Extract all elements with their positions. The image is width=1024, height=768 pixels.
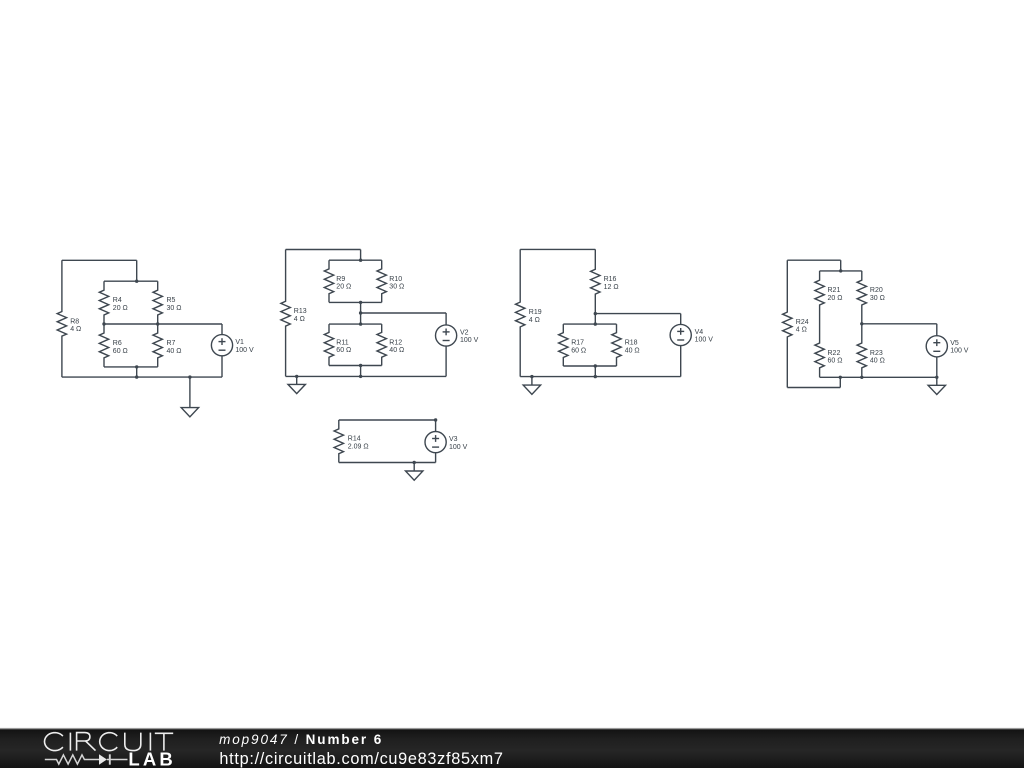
svg-text:R24: R24 [796, 319, 809, 326]
svg-text:R5: R5 [167, 297, 176, 304]
svg-text:R20: R20 [870, 287, 883, 294]
svg-text:R6: R6 [113, 340, 122, 347]
svg-text:100 V: 100 V [460, 337, 479, 344]
svg-text:100 V: 100 V [235, 347, 254, 354]
svg-text:2.09 Ω: 2.09 Ω [348, 444, 369, 451]
svg-text:R16: R16 [604, 276, 617, 283]
svg-text:R11: R11 [336, 339, 348, 346]
svg-text:R19: R19 [529, 309, 542, 316]
svg-text:30 Ω: 30 Ω [389, 284, 404, 291]
svg-text:12 Ω: 12 Ω [604, 284, 619, 291]
svg-text:R10: R10 [389, 276, 402, 283]
svg-text:4 Ω: 4 Ω [796, 327, 807, 334]
svg-text:http://circuitlab.com/cu9e83zf: http://circuitlab.com/cu9e83zf85xm7 [219, 750, 503, 768]
svg-text:100 V: 100 V [695, 337, 714, 344]
svg-text:R4: R4 [113, 297, 122, 304]
svg-text:R18: R18 [625, 340, 638, 347]
svg-text:R21: R21 [828, 287, 841, 294]
svg-text:R12: R12 [389, 339, 402, 346]
svg-text:V2: V2 [460, 329, 469, 336]
svg-text:40 Ω: 40 Ω [167, 348, 182, 355]
svg-text:LAB: LAB [128, 749, 175, 768]
svg-text:R13: R13 [294, 308, 307, 315]
svg-text:R8: R8 [70, 318, 79, 325]
svg-text:mop9047 / Number 6: mop9047 / Number 6 [219, 732, 383, 747]
svg-text:20 Ω: 20 Ω [336, 284, 351, 291]
svg-text:60 Ω: 60 Ω [828, 358, 843, 365]
svg-text:R23: R23 [870, 350, 883, 357]
svg-text:60 Ω: 60 Ω [113, 348, 128, 355]
svg-text:4 Ω: 4 Ω [70, 326, 81, 333]
svg-text:V4: V4 [695, 329, 704, 336]
svg-text:4 Ω: 4 Ω [529, 317, 540, 324]
svg-text:100 V: 100 V [950, 348, 969, 355]
svg-text:R9: R9 [336, 276, 345, 283]
svg-text:30 Ω: 30 Ω [167, 305, 182, 312]
svg-text:R7: R7 [167, 340, 176, 347]
svg-text:40 Ω: 40 Ω [389, 347, 404, 354]
svg-text:V1: V1 [235, 339, 244, 346]
svg-text:40 Ω: 40 Ω [625, 347, 640, 354]
svg-text:20 Ω: 20 Ω [828, 295, 843, 302]
svg-text:4 Ω: 4 Ω [294, 316, 305, 323]
svg-text:20 Ω: 20 Ω [113, 305, 128, 312]
svg-text:V3: V3 [449, 436, 458, 443]
svg-text:100 V: 100 V [449, 444, 468, 451]
svg-text:R14: R14 [348, 436, 361, 443]
svg-text:30 Ω: 30 Ω [870, 295, 885, 302]
svg-text:40 Ω: 40 Ω [870, 358, 885, 365]
svg-text:60 Ω: 60 Ω [571, 347, 586, 354]
svg-text:R22: R22 [828, 350, 841, 357]
svg-text:V5: V5 [950, 340, 959, 347]
svg-text:60 Ω: 60 Ω [336, 347, 351, 354]
svg-text:R17: R17 [571, 340, 584, 347]
